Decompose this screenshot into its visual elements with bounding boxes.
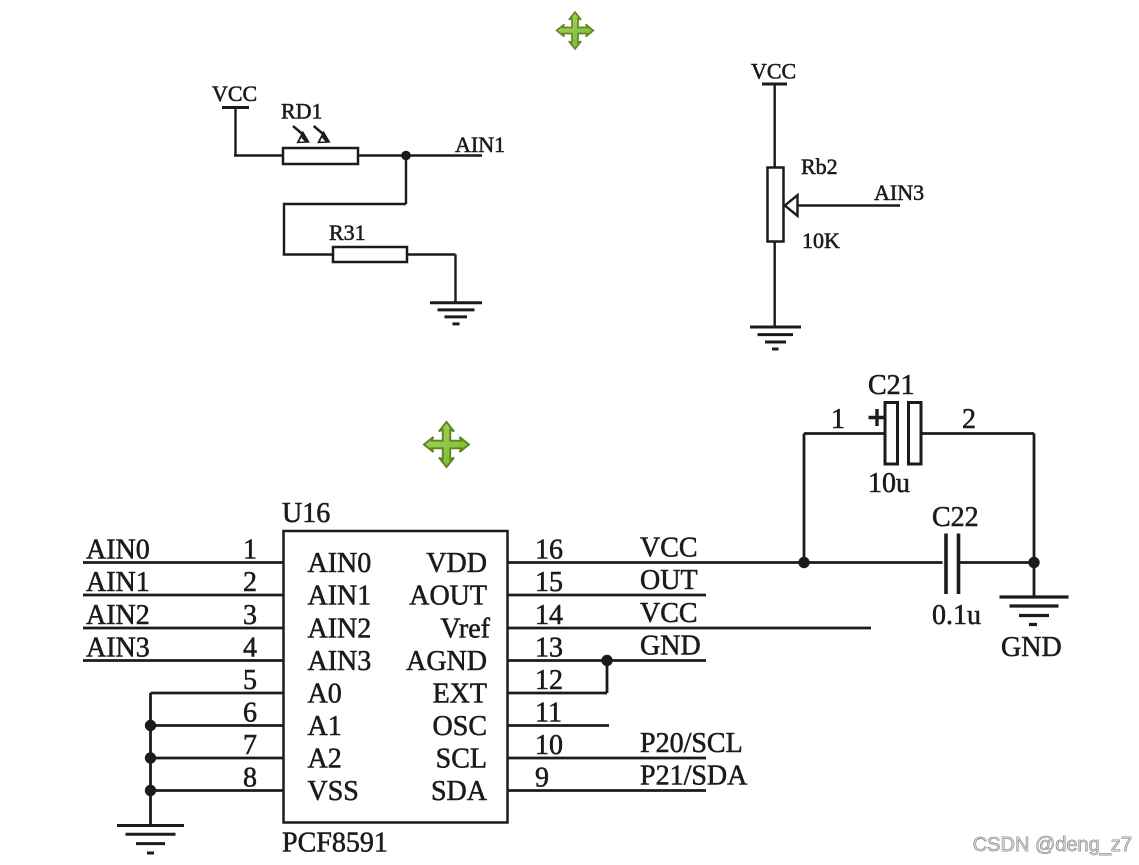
ground potentiometer (750, 327, 801, 349)
wire VCC to RD1 (234, 154, 284, 156)
svg-text:2: 2 (243, 567, 257, 598)
node VCC rail left junction (798, 557, 809, 568)
node junction AIN1 (401, 151, 411, 161)
potentiometer wiper arrow (785, 195, 798, 216)
svg-text:10u: 10u (868, 468, 910, 499)
node pin13 junction (601, 655, 612, 666)
svg-text:15: 15 (535, 567, 563, 598)
svg-text:AIN3: AIN3 (874, 180, 924, 205)
svg-text:AIN3: AIN3 (86, 633, 150, 664)
wire pin13 AGND (508, 659, 707, 662)
svg-text:10K: 10K (802, 228, 840, 253)
svg-text:16: 16 (535, 535, 563, 566)
svg-text:1: 1 (243, 535, 257, 566)
svg-text:VDD: VDD (426, 548, 487, 579)
svg-text:CSDN @deng_z7: CSDN @deng_z7 (973, 834, 1132, 856)
potentiometer Rb2 body (768, 168, 784, 242)
move icon middle (424, 422, 469, 467)
wire pin12 EXT (508, 661, 608, 694)
svg-text:OSC: OSC (433, 711, 487, 742)
svg-text:Rb2: Rb2 (801, 154, 838, 179)
svg-text:9: 9 (535, 763, 549, 794)
wire pin2 AIN1 (83, 594, 284, 597)
wire wiper to AIN3 (798, 204, 901, 206)
svg-text:VCC: VCC (640, 533, 698, 564)
svg-text:AIN1: AIN1 (308, 580, 372, 611)
svg-text:8: 8 (243, 763, 257, 794)
svg-text:Vref: Vref (440, 613, 490, 644)
svg-text:AIN2: AIN2 (86, 600, 150, 631)
wire to R31 (283, 253, 333, 255)
svg-text:A1: A1 (308, 711, 342, 742)
svg-text:C21: C21 (868, 370, 915, 401)
capacitor C22 plates (946, 534, 959, 595)
node pin8 junction (145, 785, 156, 796)
wire C21 pin2 (921, 434, 1034, 563)
ground top-left (430, 303, 482, 324)
svg-text:R31: R31 (329, 220, 366, 245)
svg-text:11: 11 (535, 698, 562, 729)
svg-text:14: 14 (535, 600, 563, 631)
svg-text:P20/SCL: P20/SCL (640, 728, 743, 759)
svg-text:AIN2: AIN2 (308, 613, 372, 644)
wire Rb2 to ground (774, 242, 776, 328)
wire pin15 AOUT (508, 594, 707, 597)
svg-text:EXT: EXT (433, 678, 487, 709)
svg-text:C22: C22 (932, 502, 979, 533)
svg-text:7: 7 (243, 730, 257, 761)
svg-text:AIN1: AIN1 (455, 132, 505, 157)
wire pin16 VDD to VCC rail (508, 561, 943, 564)
svg-text:VCC: VCC (212, 81, 257, 106)
wire pin8 VSS (151, 789, 284, 792)
wire R31 to ground (407, 255, 456, 303)
wire C22 to GND node (959, 563, 1035, 597)
photoresistor RD1 (283, 126, 358, 164)
svg-text:2: 2 (962, 404, 976, 435)
capacitor C21 plates (869, 403, 922, 465)
wire C21 pin1 (804, 434, 885, 563)
svg-text:1: 1 (831, 404, 845, 435)
wire pin10 SCL (508, 757, 707, 760)
svg-text:AIN3: AIN3 (308, 646, 372, 677)
svg-text:5: 5 (243, 665, 257, 696)
wire pin6 A1 (151, 724, 284, 727)
wire pin5 A0 (151, 692, 284, 695)
wire pin9 SDA (508, 789, 707, 792)
svg-text:4: 4 (243, 633, 257, 664)
IC U16 box (284, 531, 508, 823)
resistor R31 (333, 247, 407, 262)
wire pin14 Vref (508, 627, 872, 630)
wire down to R31 row (283, 203, 285, 255)
ground GND right (1000, 597, 1069, 625)
wire pin3 AIN2 (83, 627, 284, 630)
svg-text:12: 12 (535, 665, 563, 696)
svg-text:AIN0: AIN0 (86, 535, 150, 566)
wire horizontal to left (284, 203, 406, 205)
wire pin4 AIN3 (83, 659, 284, 662)
svg-text:AOUT: AOUT (409, 580, 487, 611)
svg-text:A2: A2 (308, 743, 342, 774)
wire pin7 A2 (151, 757, 284, 760)
svg-text:RD1: RD1 (281, 99, 323, 124)
svg-text:AGND: AGND (406, 646, 487, 677)
svg-text:VCC: VCC (640, 598, 698, 629)
svg-text:0.1u: 0.1u (932, 600, 981, 631)
svg-text:SDA: SDA (431, 776, 488, 807)
svg-text:GND: GND (1001, 632, 1062, 663)
move icon top (557, 12, 594, 49)
wire node down (405, 156, 407, 205)
power VCC top-left (222, 108, 249, 156)
svg-text:A0: A0 (308, 678, 342, 709)
svg-text:3: 3 (243, 600, 257, 631)
svg-text:10: 10 (535, 730, 563, 761)
wire node to AIN1 stub (406, 154, 482, 156)
svg-text:AIN1: AIN1 (86, 567, 150, 598)
svg-text:U16: U16 (282, 498, 330, 529)
node GND rail junction (1028, 557, 1039, 568)
svg-text:SCL: SCL (436, 743, 487, 774)
wire pin1 AIN0 (83, 561, 284, 564)
svg-text:13: 13 (535, 633, 563, 664)
ground bottom-left (117, 826, 184, 854)
svg-text:GND: GND (640, 631, 701, 662)
svg-text:P21/SDA: P21/SDA (640, 761, 748, 792)
svg-text:PCF8591: PCF8591 (282, 828, 388, 859)
node pin6 junction (145, 720, 156, 731)
wire RD1 to node (358, 154, 406, 156)
wire bus pins 5-8 down to ground (149, 693, 152, 825)
svg-text:VSS: VSS (308, 776, 359, 807)
svg-text:6: 6 (243, 698, 257, 729)
svg-text:VCC: VCC (751, 59, 796, 84)
svg-text:OUT: OUT (640, 565, 698, 596)
power VCC top-right (762, 84, 787, 168)
svg-text:AIN0: AIN0 (308, 548, 372, 579)
wire pin11 OSC (508, 724, 610, 727)
node pin7 junction (145, 752, 156, 763)
